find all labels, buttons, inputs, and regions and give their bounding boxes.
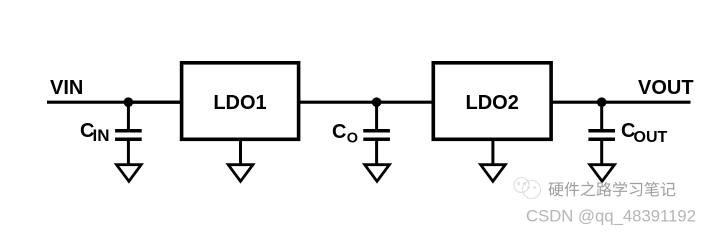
svg-text:IN: IN — [93, 126, 110, 145]
regulator U1 box LDO1 — [182, 63, 299, 140]
watermark logo circles — [514, 178, 541, 199]
ground GND1 (below CIN) — [117, 165, 142, 182]
wire: LDO1 ground lead — [239, 139, 242, 165]
svg-text:VOUT: VOUT — [638, 77, 694, 99]
wire: VIN input segment — [47, 101, 183, 104]
node A: VIN / CIN junction — [124, 97, 134, 107]
ground GND5 (below COUT) — [590, 165, 615, 182]
wire: node A to LDO1 input — [128, 101, 183, 104]
ground GND4 (below LDO2) — [481, 165, 506, 182]
svg-text:OUT: OUT — [634, 129, 668, 146]
svg-text:O: O — [347, 131, 358, 147]
regulator U2 box LDO2 — [433, 63, 551, 140]
svg-text:C: C — [332, 121, 346, 143]
ground GND3 (below CO) — [365, 165, 390, 182]
svg-text:CSDN @qq_48391192: CSDN @qq_48391192 — [526, 206, 696, 225]
wire: LDO2 ground lead — [491, 139, 494, 165]
svg-text:VIN: VIN — [50, 77, 83, 99]
watermark text line 1 (emboss white) — [550, 183, 677, 198]
svg-text:LDO2: LDO2 — [466, 92, 519, 114]
node B: LDO1 out / CO junction — [372, 97, 382, 107]
label CIN — [80, 120, 110, 145]
label COUT — [621, 120, 668, 146]
svg-text:LDO1: LDO1 — [213, 92, 266, 114]
capacitor COUT — [588, 102, 615, 164]
wire: LDO1 output to LDO2 input — [297, 101, 435, 104]
node C: LDO2 out / COUT junction — [597, 97, 607, 107]
ground GND2 (below LDO1) — [228, 165, 253, 182]
capacitor CO — [363, 102, 390, 164]
wire: LDO2 output to VOUT — [549, 101, 691, 104]
watermark text line 1 — [548, 182, 675, 197]
capacitor CIN — [115, 102, 142, 164]
label CO — [332, 121, 358, 147]
